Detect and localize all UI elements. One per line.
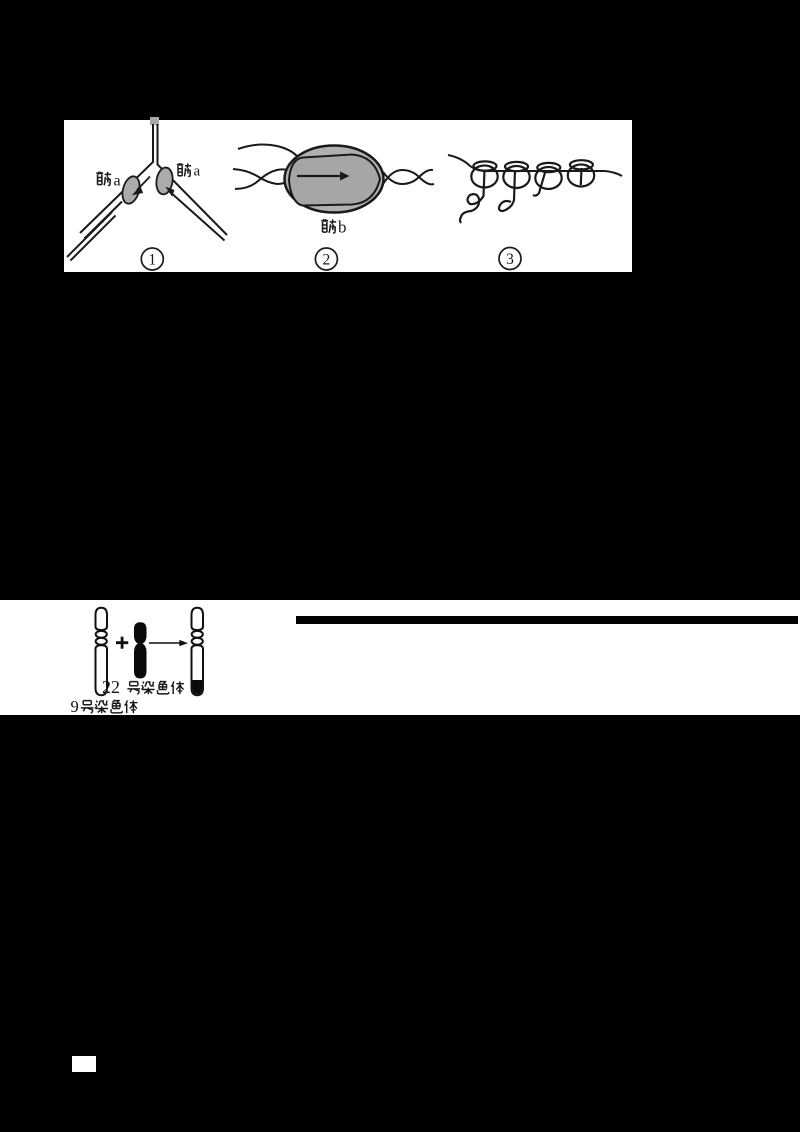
arrow in left oval <box>137 177 150 191</box>
polypeptide 1 <box>460 170 485 223</box>
mRNA strand <box>448 155 622 176</box>
plus sign <box>116 637 128 649</box>
ribosome 1 large subunit <box>471 166 497 188</box>
label 酶b <box>321 219 336 233</box>
left DNA helix <box>233 145 434 189</box>
circled number 2 <box>315 248 337 270</box>
small white square bottom-left <box>72 1056 96 1072</box>
ribosome 4 large subunit <box>568 165 594 187</box>
ribosome 3 small subunit <box>537 163 560 172</box>
svg-text:9: 9 <box>71 697 79 716</box>
circled number 3 <box>499 248 521 270</box>
svg-text:22: 22 <box>102 677 120 697</box>
ribosome 2 large subunit <box>503 166 529 188</box>
ribosome 1 small subunit <box>474 161 497 170</box>
svg-text:a: a <box>194 164 201 180</box>
chromosome 9 white capsule <box>96 608 108 695</box>
label 酶a right <box>177 163 191 176</box>
svg-text:3: 3 <box>506 251 514 268</box>
full-width white band of figure 2 <box>0 600 800 715</box>
arrow <box>149 642 180 644</box>
lower-left daughter pair <box>67 212 112 257</box>
right branch mate strand (arrow into enzyme) <box>169 191 225 241</box>
label 酶a left <box>96 172 111 186</box>
ribosome 4 small subunit <box>570 160 593 169</box>
label 22号染色体 <box>102 677 184 697</box>
polypeptide 4 stub <box>580 168 583 185</box>
circled number 1 <box>141 248 163 270</box>
polypeptide 3 <box>533 171 546 196</box>
label 9号染色体 <box>71 697 138 716</box>
figure 1 white box <box>64 120 632 272</box>
right DNA helix <box>383 170 433 184</box>
svg-text:b: b <box>338 218 347 237</box>
svg-text:2: 2 <box>323 252 331 269</box>
RNA strand top left <box>238 145 297 156</box>
polypeptide 2 <box>499 170 515 211</box>
enzyme oval a right <box>155 166 175 195</box>
black translocated tip on derived chromosome <box>193 680 203 694</box>
transcription bubble <box>289 155 380 206</box>
chromosome 22 black <box>135 623 147 678</box>
enzyme oval a left <box>120 174 143 205</box>
enzyme oval b <box>285 146 384 213</box>
svg-text:a: a <box>114 173 121 190</box>
arrow in right oval <box>165 187 174 197</box>
ribosome 3 large subunit <box>535 167 561 189</box>
left branch mate strand below enzyme <box>85 202 123 239</box>
fork stem right strand <box>158 124 228 235</box>
arrow in oval b <box>297 175 341 177</box>
ribosome 2 small subunit <box>505 162 528 171</box>
fork stem left strand <box>80 124 153 233</box>
redacted text bar <box>296 616 798 624</box>
svg-text:1: 1 <box>148 252 156 269</box>
gray nub at top of fork <box>150 117 159 125</box>
derived chromosome 9 capsule <box>192 608 204 695</box>
